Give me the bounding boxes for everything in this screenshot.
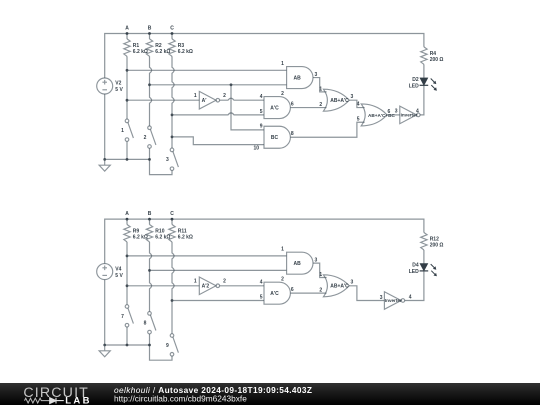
svg-text:5: 5 [260,109,263,115]
wire A to AB pin1 [127,69,287,71]
svg-text:3: 3 [380,295,383,301]
wire AB out to OR pin1 [313,78,327,92]
junction C feed 1 [171,299,174,302]
svg-text:AB: AB [293,261,301,267]
and-gate AB [287,67,313,89]
wire B stub [149,34,151,39]
svg-text:LAB: LAB [65,396,92,405]
resistor R12 200 &#937; [421,233,427,250]
svg-text:AB: AB [293,75,301,81]
wire resistor to LED [423,250,425,264]
inverter Inverter [400,106,417,124]
wire A to inverter [127,285,199,287]
switch SW7 [125,305,133,327]
ground [99,159,110,171]
wire C stub [171,219,173,224]
ground [99,345,110,357]
and-gate A'C [264,282,290,304]
wire C column (hops) [172,56,174,148]
LED D2 [420,78,428,85]
or-gate AB+A'C [323,89,349,111]
resistor R1 6.2 k&#937; [124,39,130,56]
wire ground rail [105,158,150,160]
svg-text:3: 3 [351,280,354,286]
resistor R4 200 &#937; [421,47,427,64]
svg-text:2: 2 [281,91,284,97]
wire C to BC pin10 [172,137,264,145]
voltage source V2 [97,78,113,94]
svg-text:1: 1 [281,61,284,67]
and-gate A'C [264,97,290,119]
wire A stub [126,34,128,39]
junction branch B [230,83,233,86]
wire OR out to OR2 pin4 [349,100,364,107]
wire inverter out to LED [405,271,424,301]
wire V+ rail [105,219,424,264]
svg-text:A′C: A′C [270,105,279,111]
svg-text:B: B [148,26,152,32]
svg-text:4: 4 [260,94,263,100]
wire OR out to inverter [349,286,384,301]
inverter Inverter [384,292,401,310]
svg-text:5: 5 [357,117,360,123]
svg-text:9: 9 [166,343,169,349]
svg-text:V4: V4 [115,266,121,272]
junction B feed [148,269,151,272]
inverter A&#8242;2 [199,277,216,295]
LED D4 [420,264,428,271]
svg-text:1: 1 [319,272,322,278]
svg-text:V2: V2 [115,81,121,87]
svg-text:10: 10 [253,146,259,152]
junction A feed 2 [126,284,129,287]
svg-text:1: 1 [319,87,322,93]
svg-text:6: 6 [388,109,391,115]
wire C to A'C pin5 (hop) [172,113,264,115]
svg-text:D2: D2 [412,77,419,83]
junction ground rail [103,344,106,347]
svg-text:C: C [170,26,174,32]
svg-text:A: A [125,26,129,32]
svg-text:9: 9 [260,124,263,130]
svg-text:4: 4 [357,102,360,108]
junction B feed [148,83,151,86]
wire C stub [171,34,173,39]
resistor R3 6.2 k&#937; [169,39,175,56]
switch SW8 [148,312,156,334]
junction switch A ground [126,344,129,347]
voltage source V4 [97,264,113,280]
junction switch A ground [126,158,129,161]
svg-text:2: 2 [144,135,147,141]
wire A to inverter [127,99,199,101]
wire B stub [149,219,151,224]
and-gate BC [264,126,290,148]
inverter A&#8242; [199,91,216,109]
junction C feed 2 [171,136,174,139]
svg-text:A′C: A′C [270,291,279,297]
switch SW9 [170,334,178,356]
wire AB out to OR pin1 [313,263,327,277]
wire A'C out to OR pin2 [290,292,326,294]
wire B column (hops) [150,56,152,126]
svg-text:2: 2 [281,277,284,283]
svg-text:3: 3 [351,94,354,100]
wire A stub [126,219,128,224]
wire A column [126,56,128,119]
svg-text:8: 8 [144,321,147,327]
svg-text:1: 1 [194,279,197,285]
svg-text:5: 5 [260,295,263,301]
junction A feed 1 [126,255,129,258]
junction switch B ground [148,158,151,161]
wire A to AB pin1 [127,255,287,257]
switch SW2 [148,126,156,148]
svg-text:AB+A′C: AB+A′C [330,98,349,104]
svg-text:2: 2 [319,288,322,294]
svg-text:1: 1 [121,128,124,134]
junction switch B ground [148,344,151,347]
svg-text:1: 1 [281,247,284,253]
svg-text:C: C [170,211,174,217]
wire OR2 out to inverter [387,114,400,116]
junction A feed 1 [126,69,129,72]
svg-text:7: 7 [121,314,124,320]
resistor R2 6.2 k&#937; [146,39,152,56]
svg-text:3: 3 [166,157,169,163]
wire C to A'C pin5 [172,300,264,302]
wire source to ground node [104,94,106,159]
wire inverter out to A'C pin4 [220,285,264,287]
svg-text:3: 3 [395,109,398,115]
svg-text:2: 2 [319,102,322,108]
wire ground rail [105,344,150,346]
svg-text:A′: A′ [202,98,208,104]
svg-text:BC: BC [271,135,279,141]
junction A feed 2 [126,99,129,102]
svg-text:A′2: A′2 [202,284,210,290]
svg-text:4: 4 [260,280,263,286]
svg-text:6.2 kΩ: 6.2 kΩ [178,49,193,55]
junction C feed 1 [171,114,174,117]
svg-text:6.2 kΩ: 6.2 kΩ [178,234,193,240]
svg-text:4: 4 [416,109,419,115]
wire V+ rail [105,34,424,79]
svg-text:A: A [125,211,129,217]
svg-text:http://circuitlab.com/cbd9m624: http://circuitlab.com/cbd9m6243bxfe [114,393,247,403]
svg-text:Inverter: Inverter [385,298,402,303]
and-gate AB [287,252,313,274]
svg-text:6: 6 [291,101,294,107]
wire B to AB pin2 [150,84,287,86]
resistor R9 6.2 k&#937; [124,225,130,242]
svg-text:1: 1 [194,93,197,99]
wire inverter out to A'C pin4 (hop) [220,98,264,100]
wire source to ground node [104,280,106,345]
svg-text:LED: LED [409,83,419,89]
resistor R10 6.2 k&#937; [146,225,152,242]
svg-text:B: B [148,211,152,217]
resistor R11 6.2 k&#937; [169,225,175,242]
wire C column (hops) [172,242,174,334]
svg-text:AB+A′C: AB+A′C [330,284,349,290]
wire BC out to OR2 pin5 [290,122,364,137]
wire switch to ground rail [126,327,128,345]
svg-text:6: 6 [291,287,294,293]
svg-text:5 V: 5 V [115,273,123,279]
or-gate AB+A'C+BC [361,104,387,126]
wire branch B to BC pin9 [231,85,264,130]
wire resistor to LED [423,64,425,78]
or-gate AB+A'C [323,275,349,297]
svg-text:2: 2 [223,279,226,285]
wire switch to ground rail [126,141,128,159]
svg-text:8: 8 [291,131,294,137]
switch SW1 [125,119,133,141]
wire switch B/C to ground [150,334,173,360]
svg-text:4: 4 [409,294,412,300]
wire B column (hops) [150,242,152,312]
wire inverter out to LED [420,85,424,115]
svg-text:LED: LED [409,269,419,275]
svg-text:D4: D4 [412,263,419,269]
wire B to AB pin2 [150,269,287,271]
svg-text:200 Ω: 200 Ω [430,242,444,248]
switch SW3 [170,148,178,170]
svg-text:200 Ω: 200 Ω [430,57,444,63]
svg-text:2: 2 [223,93,226,99]
wire switch B/C to ground [150,148,173,174]
junction ground rail [103,158,106,161]
wire A'C out to OR pin2 [290,107,326,109]
wire A column [126,242,128,305]
svg-text:5 V: 5 V [115,87,123,93]
